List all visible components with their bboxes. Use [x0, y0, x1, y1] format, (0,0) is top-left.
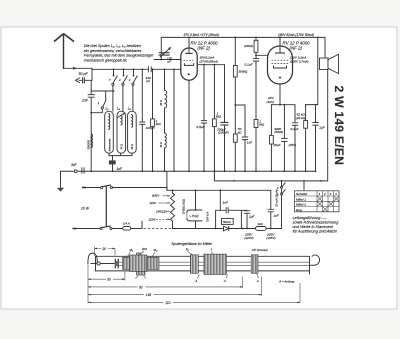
wire vertical x164.5 with coils: [164, 69, 166, 171]
svg-text:(195V): (195V): [266, 236, 275, 240]
inner rod lines: [119, 261, 310, 263]
svg-text:∿ 7V(2): ∿ 7V(2): [189, 214, 199, 218]
svg-text:GW 6,4: GW 6,4: [205, 211, 209, 222]
wire upper pole to heater rail: [112, 188, 166, 191]
switch 4: [129, 69, 138, 85]
label A choke: [256, 279, 259, 283]
resistor 4000 cathode: [270, 105, 284, 172]
jack circle on bus: [74, 170, 77, 173]
capacitor 3nF on bus: [71, 163, 84, 174]
leader M1: [127, 252, 131, 258]
rectifier loop with 1nF: [216, 201, 242, 229]
svg-text:0,4 A: 0,4 A: [123, 222, 130, 226]
svg-text:110V: 110V: [150, 201, 158, 205]
coil 500/50 in antenna lead: [87, 134, 92, 150]
wire 2nF down to bus: [90, 97, 92, 171]
svg-text:93: 93: [139, 285, 143, 289]
svg-text:Die drei Spulen L₁, L₄, L₅ bes: Die drei Spulen L₁, L₄, L₅ besitzen: [84, 44, 141, 48]
svg-text:(32V): (32V): [267, 100, 275, 104]
leader A winding1: [198, 274, 200, 278]
capacitor 1nF branch: [242, 137, 253, 171]
svg-text:10 mA (5mA): 10 mA (5mA): [274, 189, 278, 207]
leader A winding2: [226, 275, 228, 279]
wire anode side line: [197, 64, 224, 66]
svg-text:74 Ω: 74 Ω: [121, 144, 124, 149]
coil L1: [105, 107, 114, 154]
coil L5: [128, 107, 137, 154]
capacitor 1uF second: [268, 190, 280, 228]
leader RL: [188, 251, 193, 254]
capacitor 0,5uF: [197, 121, 208, 130]
variable capacitor 150pF: [159, 37, 172, 63]
valve RV12P4000 output: [268, 46, 293, 84]
svg-text:35 Ω: 35 Ω: [160, 142, 163, 147]
tap 6V: [152, 194, 170, 198]
dimension extension left: [87, 265, 89, 304]
svg-text:1900Ω (kΩ): 1900Ω (kΩ): [182, 199, 186, 215]
label L: [211, 247, 213, 251]
bus junction dots: [90, 170, 92, 172]
coil rod assembly hook left: [88, 253, 97, 264]
fuse 0,4A: [123, 222, 131, 230]
dimension 145: [88, 277, 262, 298]
wire switch7 to coil L1: [112, 85, 114, 111]
dashed mains to dropper: [144, 228, 173, 230]
resistor 300k: [233, 37, 248, 105]
svg-text:ein gemeinsames, verschiebbare: ein gemeinsames, verschiebbares: [84, 49, 142, 53]
svg-text:L: L: [211, 247, 213, 251]
label M1: [130, 248, 134, 252]
svg-text:Rₗ: Rₗ: [186, 248, 189, 252]
resistor 1M grid2: [254, 119, 265, 127]
switch 1: [98, 91, 107, 109]
switch table: [295, 191, 340, 212]
svg-text:2: 2: [323, 192, 326, 196]
svg-text:500/50Ω: 500/50Ω: [87, 140, 90, 150]
capacitor 0,1uF cathode: [291, 105, 300, 172]
wire coil bottoms collector: [109, 153, 132, 160]
wire switch row rail: [91, 90, 113, 92]
svg-text:mechanisch gekoppelt ist.: mechanisch gekoppelt ist.: [84, 58, 128, 62]
wire grid rail: [92, 68, 181, 70]
wire vertical x142: [141, 69, 143, 171]
capacitor 200pF: [216, 122, 229, 134]
node junction 235,105: [234, 104, 236, 106]
tap 140/210: [156, 210, 170, 214]
svg-text:190V 62mA (170V 50mA): 190V 62mA (170V 50mA): [278, 33, 314, 37]
antenna: [54, 34, 74, 69]
svg-text:MΩ: MΩ: [259, 122, 265, 126]
wire HT to speaker: [324, 37, 326, 58]
capacitor 1nF solid: [109, 160, 123, 171]
switch link bar: [105, 186, 107, 227]
label RM: [142, 247, 147, 251]
label 20V (32V): [267, 96, 275, 104]
svg-text:Spulengehäuse im Mittel: Spulengehäuse im Mittel: [171, 242, 212, 246]
leader L: [212, 251, 213, 254]
coil block M1: [123, 257, 130, 269]
svg-text:Mittel 2: Mittel 2: [296, 203, 306, 207]
svg-text:Schalter: Schalter: [296, 192, 308, 196]
wire x224.5 down: [224, 65, 226, 172]
leader A choke: [257, 274, 259, 278]
svg-text:A = Anfang: A = Anfang: [278, 279, 294, 283]
svg-text:(5000): (5000): [274, 130, 283, 134]
svg-text:(20 kΩ): (20 kΩ): [296, 116, 306, 120]
svg-text:3: 3: [330, 192, 332, 196]
label 235V: [244, 232, 254, 240]
svg-text:65 Ω: 65 Ω: [160, 100, 163, 105]
svg-text:18µF: 18µF: [273, 143, 281, 147]
svg-text:A: A: [223, 279, 226, 283]
wire vertical x152.5: [152, 69, 154, 171]
svg-text:MΩ: MΩ: [216, 115, 222, 119]
svg-text:M₁: M₁: [130, 248, 134, 252]
rod fitting: [115, 259, 118, 269]
svg-text:300kΩ: 300kΩ: [239, 69, 249, 73]
ground: [57, 171, 64, 191]
svg-text:1: 1: [319, 192, 321, 196]
svg-text:145: 145: [146, 293, 152, 297]
HT output line: [173, 228, 282, 230]
capacitor 18uF electrolytic: [273, 104, 296, 171]
text note Die drei Spulen: [84, 44, 163, 62]
wire bus1 drop to rail: [166, 171, 168, 190]
svg-text:6(5)V: 6(5)V: [152, 194, 160, 198]
mains switch lower pole: [100, 226, 123, 230]
svg-text:4: 4: [335, 192, 337, 196]
wire valve1 bottom to bus: [188, 80, 190, 171]
tap 220V: [148, 217, 171, 221]
svg-text:L₁: L₁: [106, 107, 109, 111]
svg-text:(NF 2): (NF 2): [290, 46, 303, 51]
nub bottom RM: [137, 272, 146, 276]
nub top RM: [137, 253, 142, 255]
svg-text:MΩ: MΩ: [156, 122, 162, 126]
coil block M2: [147, 257, 159, 269]
wire to 1nF branch: [235, 105, 245, 136]
svg-text:A: A: [256, 279, 259, 283]
resistor 50k: [233, 105, 242, 171]
wire cathode2 down: [279, 84, 281, 105]
label RL: [186, 248, 189, 252]
HT rail: [161, 36, 325, 38]
label 200V: [266, 232, 276, 240]
coil 35ohm: [160, 133, 166, 148]
wire fuse to voltage tap: [131, 221, 142, 229]
bus 2 lower: [214, 171, 327, 181]
svg-text:140/210: 140/210: [156, 210, 167, 214]
svg-text:(100pF): (100pF): [218, 130, 229, 134]
svg-text:(NF 2): (NF 2): [198, 46, 211, 51]
wire x214 down: [213, 65, 215, 172]
wire switch3 to coil L4: [122, 85, 124, 111]
barretter lamp bracket: [187, 190, 202, 228]
coil block RM: [130, 255, 148, 272]
heater rail: [167, 189, 271, 191]
svg-text:68 Ω: 68 Ω: [131, 144, 134, 149]
svg-text:110: 110: [165, 301, 170, 305]
svg-text:30: 30: [107, 278, 111, 282]
dimension 93: [88, 277, 243, 290]
coil 65ohm: [160, 90, 167, 108]
leader RM: [140, 251, 144, 255]
leader M2: [152, 252, 155, 257]
svg-text:Ferropaket, das mit dem Saugkr: Ferropaket, das mit dem Saugkreiszeiger: [84, 54, 154, 58]
wire stub bus2 to table area: [303, 181, 305, 190]
svg-text:0,5µF: 0,5µF: [197, 125, 206, 129]
wire anode2 to HT: [279, 37, 281, 46]
resistor 1k smoothing: [256, 222, 267, 230]
wire antenna to input corner: [64, 68, 93, 80]
hook right: [310, 255, 320, 265]
svg-text:50mA: 50mA: [223, 220, 231, 224]
label valve 1: [191, 40, 219, 50]
capacitor 1uF tone: [312, 104, 325, 172]
svg-text:(100V 3,7mA): (100V 3,7mA): [290, 59, 309, 63]
mains lead lower: [73, 228, 101, 230]
resistor 1M grid leak: [151, 119, 162, 127]
svg-text:lang: lang: [296, 208, 302, 212]
loudspeaker: [320, 54, 339, 73]
capacitor 50pF: [76, 77, 93, 83]
svg-text:2 W 149 E/EN: 2 W 149 E/EN: [332, 86, 346, 166]
svg-text:2nF: 2nF: [81, 99, 89, 103]
note text Leitungsfuehrung: [293, 215, 340, 234]
switch 3: [119, 69, 128, 85]
label M2: [154, 248, 159, 252]
chassis bus 1: [61, 170, 316, 172]
svg-text:A: A: [194, 279, 197, 283]
coil block RL: [190, 255, 198, 273]
wire tone branch from HT: [306, 37, 318, 104]
svg-text:‚HF Drossel: ‚HF Drossel: [251, 248, 268, 252]
tap 110V: [150, 201, 171, 205]
svg-text:Antennenkr.: Antennenkr.: [108, 138, 111, 153]
resistor 52k tone: [296, 105, 308, 172]
capacitor 0,1uF screen: [245, 59, 260, 172]
label HF Drossel: [251, 248, 268, 252]
capacitor 100pF in x142 lead: [139, 122, 155, 130]
label A winding1: [194, 279, 197, 283]
mains switch upper pole: [101, 185, 113, 189]
mains lead upper: [82, 187, 101, 189]
label A Anfang: [278, 279, 294, 283]
rod end circle: [97, 262, 100, 265]
wire grid line to valve: [154, 59, 181, 61]
case outline: [96, 256, 310, 274]
svg-text:37V 0,6mA +17V (35mA): 37V 0,6mA +17V (35mA): [184, 33, 219, 37]
cathode jog wire: [271, 104, 295, 106]
rectifier 50mA: [222, 218, 234, 230]
svg-text:10 W: 10 W: [81, 207, 90, 211]
wire anode to HT rail: [188, 37, 190, 48]
svg-text:220V: 220V: [148, 217, 157, 221]
svg-text:kΩ: kΩ: [238, 130, 243, 134]
wire speaker down to lower bus: [327, 70, 329, 181]
label 18V 22mA: [200, 56, 219, 64]
svg-text:50 pF: 50 pF: [79, 72, 89, 76]
svg-text:0,1µF: 0,1µF: [245, 63, 254, 67]
coil block L: [204, 254, 227, 274]
node junction at 91,112.7: [90, 112, 92, 114]
capacitor 1uF first: [241, 210, 255, 228]
wire 1nF to bus: [112, 164, 114, 171]
wire switch4 to coil L5: [132, 85, 134, 111]
svg-text:20: 20: [101, 247, 106, 251]
svg-text:für Ausführung 2W149EN: für Ausführung 2W149EN: [293, 229, 337, 234]
label A winding2: [223, 279, 226, 283]
svg-text:0,1µF: 0,1µF: [291, 127, 300, 131]
arrow on antenna wire: [73, 67, 78, 70]
capacitor 2nF: [81, 95, 95, 103]
dimension 30: [88, 272, 125, 282]
valve RV12P4000 first: [181, 48, 197, 80]
svg-text:Mittel 1: Mittel 1: [296, 197, 306, 201]
dimension 110: [88, 283, 300, 305]
svg-text:(220V): (220V): [244, 236, 253, 240]
wire cathode down x174: [173, 68, 175, 70]
wire input down: [90, 80, 92, 93]
wire screen to valve2: [256, 54, 268, 56]
wire x204 down: [203, 65, 205, 172]
capacitor 100pF in grid rail: [145, 66, 151, 83]
coil block HF choke: [251, 255, 258, 273]
switch contacts 3 4 below bus2: [277, 181, 285, 229]
resistor 1M coupling: [213, 112, 222, 127]
svg-text:(17V/0,85mA): (17V/0,85mA): [200, 60, 219, 64]
resistor 100k screen: [244, 37, 258, 58]
svg-text:1kΩ: 1kΩ: [257, 222, 263, 226]
leader nub RM: [135, 276, 146, 279]
svg-text:100kΩ: 100kΩ: [244, 44, 254, 48]
dimension 20: [95, 246, 116, 256]
switch 7: [109, 69, 118, 85]
label valve 2: [283, 40, 311, 50]
rectifier feed wire: [219, 190, 221, 210]
wire to pickup switch: [91, 109, 102, 113]
label 110V 32mA: [290, 55, 309, 63]
svg-text:RM: RM: [142, 247, 147, 251]
coil L4: [117, 107, 126, 154]
rod shaft: [91, 263, 115, 265]
dropper resistor 1900 zigzag: [170, 190, 185, 228]
